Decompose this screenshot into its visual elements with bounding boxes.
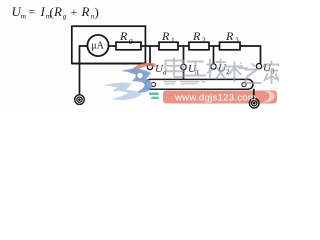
watermark logo blue swirl: [103, 69, 152, 100]
junction wire to U2: [213, 46, 215, 64]
label Rg: [119, 29, 133, 45]
uA meter circle U1: [87, 35, 108, 56]
watermark teal mark: [149, 93, 159, 100]
svg-text:g: g: [129, 36, 133, 45]
watermark logo red crescent: [130, 63, 156, 74]
junction wire to U1: [183, 46, 185, 64]
wire R3 to right corner: [240, 46, 261, 64]
label R2: [192, 29, 206, 45]
formula Um = Im(Rg + Rn): [12, 4, 99, 21]
resistor Rg box: [116, 42, 141, 50]
svg-text:R: R: [192, 29, 201, 43]
bar plug left: [151, 82, 155, 86]
svg-text:R: R: [81, 4, 90, 19]
char ji: [207, 59, 227, 80]
label U2: [218, 63, 230, 77]
wire R1 to R2: [178, 45, 189, 47]
terminal U1: [181, 64, 186, 69]
wire Rg to R1: [141, 45, 159, 47]
output terminal right (bullseye): [249, 98, 259, 108]
svg-text:R: R: [119, 29, 128, 43]
svg-text:R: R: [161, 29, 170, 43]
resistor R3: [220, 42, 241, 50]
char zhi: [239, 64, 262, 84]
resistor R2: [189, 42, 209, 50]
terminal U2: [211, 64, 216, 69]
terminal U3: [256, 63, 261, 68]
char dian: [166, 58, 184, 78]
bar plug right: [242, 82, 246, 86]
svg-text:I: I: [40, 4, 46, 19]
char jia: [264, 61, 279, 84]
svg-text:2: 2: [202, 36, 206, 45]
wire meter left: [80, 46, 88, 95]
wire R2 to R3: [209, 45, 220, 47]
svg-text:μA: μA: [91, 41, 104, 52]
label U3: [263, 62, 275, 76]
svg-text:R: R: [53, 4, 62, 19]
watermark tiny caption inside bar: [164, 81, 206, 84]
terminal Ua: [147, 64, 152, 69]
watermark hanzi (drawn strokes, no CJK font on renderer): [166, 58, 280, 85]
svg-text:R: R: [225, 29, 234, 43]
svg-text:): ): [95, 5, 99, 20]
output terminal left (bullseye): [75, 95, 85, 105]
label R3: [225, 29, 239, 45]
wire meter right: [109, 45, 116, 47]
label Ua: [155, 63, 167, 77]
char shu: [226, 62, 243, 83]
junction wire to Ua: [149, 46, 151, 64]
svg-text:3: 3: [235, 36, 239, 45]
svg-text:1: 1: [171, 36, 175, 45]
svg-text:g: g: [63, 13, 67, 21]
circuit: [72, 26, 261, 95]
watermark red url box: [163, 91, 277, 104]
char gong: [185, 62, 206, 76]
svg-text:www.dgjs123.com: www.dgjs123.com: [174, 93, 256, 104]
svg-text:=: =: [29, 5, 36, 19]
meter inner box: [72, 26, 146, 63]
shorting bar: [146, 79, 254, 89]
label R1: [161, 29, 175, 45]
resistor R1: [159, 42, 178, 50]
label U1: [188, 63, 200, 77]
wire U1 to bar: [183, 70, 185, 80]
svg-text:m: m: [21, 13, 26, 21]
svg-text:+: +: [71, 5, 78, 19]
wire bar to output terminal: [253, 89, 255, 99]
